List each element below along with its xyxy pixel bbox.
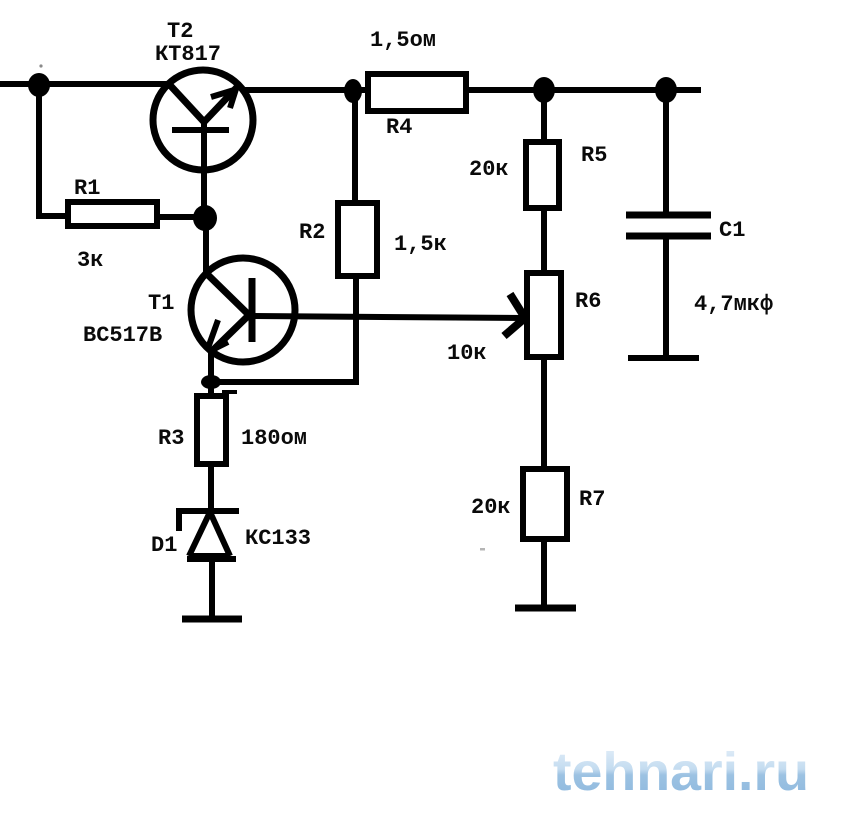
svg-text:tehnari.ru: tehnari.ru (553, 742, 809, 802)
tick mark right of R3 top (222, 390, 237, 394)
wire R2 top lead (352, 91, 358, 204)
node C2 (R5 tap) (533, 77, 555, 103)
svg-text:R5: R5 (581, 143, 607, 168)
resistor R5 (526, 142, 559, 208)
transistor T2 emitter line (204, 84, 240, 122)
svg-text:R6: R6 (575, 289, 601, 314)
wire R1 left lead (36, 213, 68, 219)
transistor T1 emitter arrow barb 2 (210, 342, 228, 351)
svg-text:C1: C1 (719, 218, 745, 243)
potentiometer R6 wiper arrow barb lower (504, 318, 525, 336)
svg-text:КТ817: КТ817 (155, 42, 221, 67)
diode D1 zener hook (176, 509, 182, 531)
diode D1 anode bar (187, 556, 236, 562)
svg-text:4,7мкф: 4,7мкф (694, 292, 773, 317)
ground bar under R7 (515, 605, 576, 612)
resistor R4 (368, 74, 466, 111)
transistor T1 base lead wire to R6 wiper (252, 316, 524, 318)
resistor R7 (523, 469, 567, 539)
wire R3 bottom lead to D1 (208, 464, 214, 511)
resistor R2 (338, 203, 377, 276)
svg-text:1,5ом: 1,5ом (370, 28, 436, 53)
resistor R1 (68, 202, 157, 226)
transistor T2 base bar (172, 127, 229, 133)
svg-text:1,5к: 1,5к (394, 232, 447, 257)
resistor R3 (197, 396, 226, 464)
speck left of R7 bottom (480, 548, 485, 551)
svg-text:180ом: 180ом (241, 426, 307, 451)
node B (base of T2 / collector of T1) (193, 205, 217, 231)
transistor T1 collector line (206, 273, 250, 316)
transistor T1 emitter arrow barb 1 (208, 320, 218, 348)
capacitor C1 top plate (626, 212, 711, 219)
wire top-left rail (0, 81, 172, 87)
diode D1 triangle (189, 512, 230, 556)
transistor T1 base bar (249, 278, 256, 342)
transistor T2 base lead (201, 121, 207, 212)
speck above node A (39, 64, 42, 67)
potentiometer R6 (527, 273, 561, 357)
wire R2 bottom lead (353, 276, 359, 382)
node D (emitter of T1) (201, 375, 221, 389)
svg-text:D1: D1 (151, 533, 177, 558)
node A (junction top-left) (28, 73, 50, 97)
transistor T2 emitter arrow barb 1 (211, 90, 234, 97)
svg-text:R3: R3 (158, 426, 184, 451)
diode D1 cathode bar (176, 508, 239, 514)
svg-text:R1: R1 (74, 176, 100, 201)
wire R1 right lead to node B (157, 214, 205, 220)
svg-text:20к: 20к (469, 157, 509, 182)
wire T1 emitter lead down to R3 (208, 352, 214, 397)
wire left drop from node A to R1 (36, 84, 42, 216)
wire emitter bus from node D to R2 (211, 379, 359, 385)
potentiometer R6 wiper arrow barb upper (510, 294, 525, 318)
transistor T1 emitter line (210, 315, 249, 353)
wire right chain R5-R6-R7 (541, 90, 547, 606)
svg-text:R7: R7 (579, 487, 605, 512)
svg-text:Т2: Т2 (167, 19, 193, 44)
svg-text:3к: 3к (77, 248, 103, 273)
node E (C1 tap) (655, 77, 677, 103)
transistor T2 collector line (168, 83, 205, 123)
transistor T2 circle (153, 70, 253, 170)
ground bar under D1 (182, 616, 242, 623)
node C (R2 tap) (344, 79, 362, 103)
transistor T1 circle (191, 258, 295, 362)
wire D1 anode lead to ground (209, 559, 215, 617)
transistor T1 collector lead (203, 215, 209, 277)
svg-text:20к: 20к (471, 495, 511, 520)
wire C1 bottom lead (663, 239, 669, 357)
svg-text:КС133: КС133 (245, 526, 311, 551)
capacitor C1 bottom plate (626, 233, 711, 240)
wire top rail from T2 to right end (242, 87, 701, 93)
svg-text:Т1: Т1 (148, 291, 174, 316)
svg-text:10к: 10к (447, 341, 487, 366)
svg-text:R2: R2 (299, 220, 325, 245)
wire C1 top lead (663, 90, 669, 213)
transistor T2 emitter arrow barb 2 (230, 89, 236, 108)
svg-text:ВС517В: ВС517В (83, 323, 162, 348)
svg-text:R4: R4 (386, 115, 412, 140)
ground bar under C1 (628, 355, 699, 361)
